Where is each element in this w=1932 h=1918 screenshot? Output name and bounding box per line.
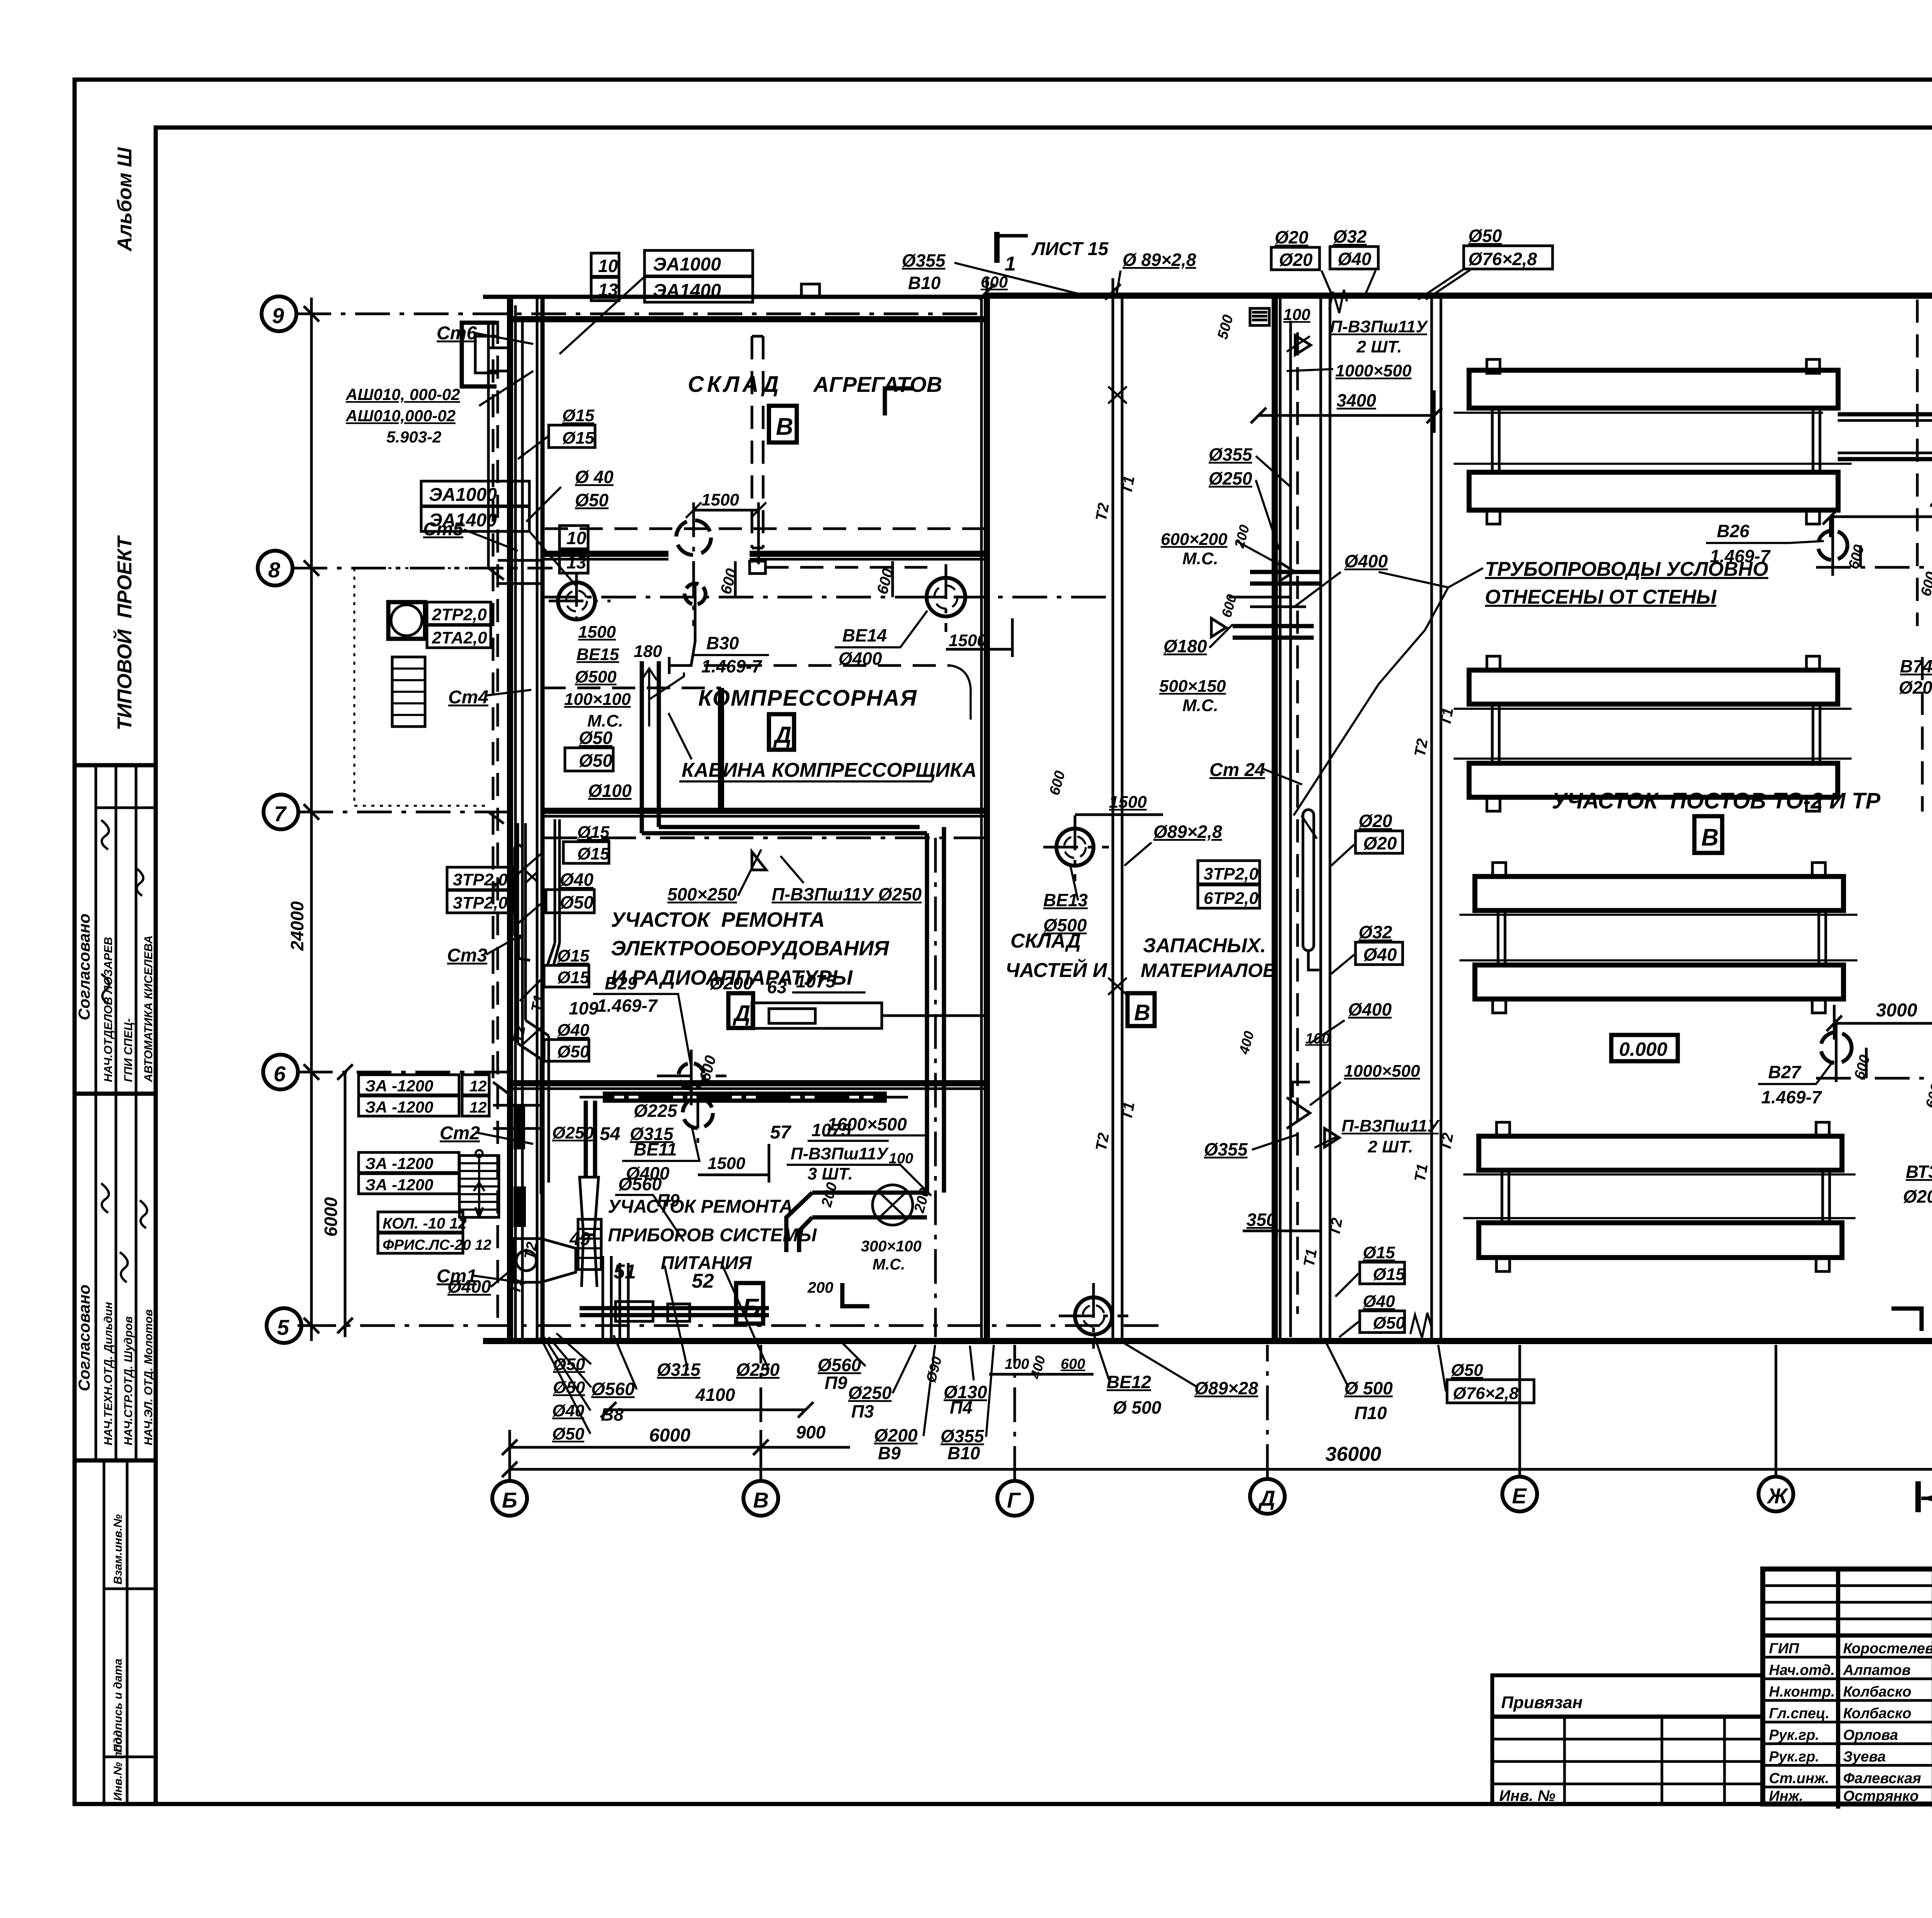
svg-text:Т1: Т1: [1301, 1247, 1320, 1268]
svg-text:УЧАСТОК РЕМОНТА: УЧАСТОК РЕМОНТА: [611, 908, 825, 931]
svg-text:Зуева: Зуева: [1843, 1749, 1886, 1765]
svg-text:Ø76×2,8: Ø76×2,8: [1468, 249, 1537, 269]
svg-text:Ø50: Ø50: [1468, 226, 1502, 246]
dim 1500 at VE16: [694, 502, 759, 564]
left axis circle 7: [264, 795, 298, 829]
svg-text:П-ВЗПш11У: П-ВЗПш11У: [1342, 1116, 1440, 1135]
svg-text:В9: В9: [878, 1443, 901, 1463]
pipes T1 T2 right corridor: [1432, 296, 1441, 1341]
fixture at 1000x500: [1287, 1082, 1310, 1128]
uchastok elektro bottom wall: [507, 1080, 987, 1086]
staircase: [459, 1156, 499, 1217]
svg-text:600: 600: [1061, 1356, 1085, 1372]
svg-text:ВЕ15: ВЕ15: [577, 645, 619, 664]
top wall notch square: [801, 284, 820, 297]
bottom axis circle G: [997, 1481, 1032, 1516]
triangle symbol top: [1295, 335, 1311, 355]
band zigzag jogs: [518, 943, 560, 1194]
svg-text:Ø50: Ø50: [552, 1424, 585, 1443]
svg-text:Ø15: Ø15: [577, 823, 610, 842]
svg-text:57: 57: [770, 1122, 792, 1143]
room letter B box: [736, 1283, 763, 1324]
svg-text:Т2: Т2: [1093, 1132, 1112, 1152]
svg-text:Ø15: Ø15: [557, 968, 590, 987]
section mark 1 top with list 15: [994, 232, 1000, 263]
svg-text:24000: 24000: [287, 901, 307, 951]
pit tabs small squares: [1487, 359, 1829, 1271]
svg-text:Ø500: Ø500: [575, 667, 617, 686]
equipment 51 52: [616, 1302, 653, 1321]
dim 600 rotated at VE16: [734, 561, 737, 597]
svg-text:П-ВЗПш11У Ø250: П-ВЗПш11У Ø250: [772, 884, 922, 904]
svg-text:Ø250: Ø250: [552, 1123, 594, 1142]
kabina kompressorschika wall: [718, 688, 724, 811]
vertical pipes to bottom wall: [603, 1256, 628, 1341]
svg-text:2ТА2,0: 2ТА2,0: [432, 628, 487, 647]
vent VE14: [927, 578, 965, 616]
svg-text:6000: 6000: [649, 1425, 690, 1446]
svg-text:3000: 3000: [1876, 1000, 1917, 1021]
svg-text:Инв.№ подл.: Инв.№ подл.: [112, 1727, 124, 1801]
svg-text:П10: П10: [1354, 1403, 1387, 1423]
corridor pipes T2 T1: [1113, 296, 1122, 1341]
pit edge lines pair3: [1459, 915, 1857, 960]
svg-text:6000: 6000: [321, 1197, 341, 1237]
bottom dimension line 36000: [502, 1462, 1932, 1477]
svg-text:Альбом Ш: Альбом Ш: [114, 147, 136, 252]
svg-text:Ø180: Ø180: [1163, 636, 1207, 656]
svg-text:Д: Д: [773, 722, 791, 748]
svg-text:100×100: 100×100: [564, 690, 631, 709]
svg-text:1000×500: 1000×500: [1335, 361, 1412, 380]
svg-text:Ø76×2,8: Ø76×2,8: [1453, 1384, 1519, 1403]
svg-text:ЛИСТ 15: ЛИСТ 15: [1031, 239, 1109, 259]
dim 600 at VE14: [891, 561, 894, 597]
svg-text:36000: 36000: [1325, 1443, 1381, 1465]
svg-text:ЗА -1200: ЗА -1200: [365, 1176, 433, 1194]
duct elbow bottom and fan: [786, 1193, 927, 1252]
pit pair 2 posts: [1492, 704, 1820, 763]
svg-text:ТИПОВОЙ ПРОЕКТ: ТИПОВОЙ ПРОЕКТ: [113, 535, 136, 730]
title block left grid verticals: [1838, 1569, 1932, 1809]
sidebar soglasovano-1 columns: [96, 765, 136, 1094]
svg-text:Ø200: Ø200: [874, 1425, 918, 1445]
svg-text:ГПИ СПЕЦ-: ГПИ СПЕЦ-: [122, 1018, 135, 1082]
svg-text:Рук.гр.: Рук.гр.: [1769, 1749, 1819, 1765]
svg-text:ЭА1000: ЭА1000: [653, 254, 721, 275]
svg-text:НАЧ.ЭЛ. ОТД. Молотов: НАЧ.ЭЛ. ОТД. Молотов: [142, 1309, 155, 1445]
x-mark on riser: [526, 871, 538, 882]
svg-text:100: 100: [1283, 305, 1310, 323]
stoyak capsule long: [515, 845, 522, 938]
svg-text:100: 100: [1005, 1356, 1029, 1372]
svg-text:Согласовано: Согласовано: [75, 914, 93, 1020]
svg-text:В: В: [1701, 824, 1719, 851]
svg-text:350: 350: [1247, 1210, 1276, 1230]
svg-text:1.469-7: 1.469-7: [1761, 1087, 1822, 1107]
vent V27: [1821, 1032, 1852, 1063]
svg-text:Острянко: Острянко: [1843, 1788, 1919, 1804]
leaders left cluster: [512, 436, 561, 1045]
title block roles and names: [1769, 1641, 1932, 1804]
svg-text:Инв. №: Инв. №: [1499, 1787, 1555, 1804]
room letter V box sklad: [1128, 993, 1155, 1026]
svg-text:Ø20: Ø20: [1275, 227, 1308, 247]
svg-text:Ж: Ж: [1766, 1484, 1789, 1508]
svg-text:Ø315: Ø315: [630, 1124, 674, 1144]
svg-text:Ø560: Ø560: [818, 1355, 861, 1375]
svg-text:Т2: Т2: [1326, 1217, 1346, 1237]
svg-text:Ø 89×2,8: Ø 89×2,8: [1122, 250, 1196, 270]
svg-text:2ТР2,0: 2ТР2,0: [432, 605, 487, 624]
sidebar bottom cells vzam inv: [104, 1460, 127, 1804]
svg-text:КОЛ. -10 12: КОЛ. -10 12: [383, 1215, 467, 1232]
svg-text:Взам.инв.№: Взам.инв.№: [112, 1515, 124, 1584]
svg-text:Ø89×28: Ø89×28: [1194, 1378, 1258, 1398]
svg-text:10: 10: [598, 256, 618, 276]
otm 0.000 box: [1611, 1035, 1678, 1061]
svg-text:Привязан: Привязан: [1501, 1693, 1583, 1712]
svg-text:ЗА -1200: ЗА -1200: [365, 1098, 433, 1116]
svg-text:ЗА -1200: ЗА -1200: [365, 1154, 433, 1173]
2TP2D box: [427, 602, 491, 625]
svg-text:Ст2: Ст2: [440, 1123, 480, 1144]
dim 1500 at VE14: [946, 618, 1012, 657]
svg-text:Д: Д: [1258, 1486, 1275, 1510]
svg-text:ПИТАНИЯ: ПИТАНИЯ: [661, 1253, 752, 1273]
svg-text:0.000: 0.000: [1619, 1038, 1667, 1060]
svg-text:Ø40: Ø40: [1338, 249, 1371, 269]
section mark 1 bottom: [1915, 1481, 1921, 1512]
svg-text:Т1: Т1: [1412, 1162, 1431, 1183]
svg-text:900: 900: [796, 1422, 826, 1442]
vent VE11: [683, 1098, 713, 1128]
svg-text:АШ010,000-02: АШ010,000-02: [345, 407, 456, 425]
sklad agregatov dashed vertical duct: [752, 336, 763, 548]
pit pair 1 bar A: [1469, 370, 1844, 1258]
pit edge lines pair4: [1463, 1174, 1855, 1218]
svg-text:Ø20: Ø20: [1363, 833, 1397, 853]
square with circle unit: [388, 602, 425, 639]
svg-text:180: 180: [634, 642, 662, 661]
svg-text:Т2: Т2: [510, 1025, 529, 1044]
svg-text:3ТР2,0: 3ТР2,0: [1204, 865, 1259, 883]
privyazan table: [1492, 1675, 1763, 1804]
svg-text:Ø315: Ø315: [657, 1360, 701, 1380]
dim 600 at V27: [1865, 1048, 1868, 1078]
svg-text:В74: В74: [1900, 656, 1932, 676]
svg-text:200: 200: [807, 1279, 833, 1296]
svg-text:АГРЕГАТОВ: АГРЕГАТОВ: [813, 372, 942, 397]
svg-text:13: 13: [598, 280, 618, 300]
svg-text:Инж.: Инж.: [1769, 1788, 1803, 1804]
sklad agregatov dashed duct line: [545, 528, 987, 530]
svg-text:1600×500: 1600×500: [827, 1114, 907, 1134]
corner mark bottom right: [1891, 1309, 1922, 1331]
svg-text:ВЕ13: ВЕ13: [1043, 890, 1088, 910]
fixture mid D axis: [1250, 572, 1320, 584]
svg-text:500×250: 500×250: [667, 884, 737, 904]
svg-text:Ст4: Ст4: [448, 687, 488, 708]
svg-text:Ø250: Ø250: [848, 1383, 892, 1403]
svg-text:Ø100: Ø100: [588, 781, 632, 801]
svg-text:Ø40: Ø40: [560, 870, 594, 890]
svg-text:УЧАСТОК РЕМОНТА: УЧАСТОК РЕМОНТА: [608, 1196, 793, 1217]
vent V26: [1818, 531, 1847, 560]
boxes 10 13 second: [560, 526, 588, 549]
svg-text:100: 100: [889, 1150, 913, 1167]
svg-text:100: 100: [1305, 1031, 1330, 1047]
svg-text:Ст3: Ст3: [447, 945, 487, 966]
svg-text:Ø89×2,8: Ø89×2,8: [1153, 822, 1222, 842]
svg-text:3ТР2,0: 3ТР2,0: [453, 870, 508, 889]
left band extra risers and capsules: [518, 819, 560, 1043]
vent VE12: [1075, 1297, 1112, 1334]
svg-text:1500: 1500: [701, 490, 739, 509]
svg-text:Ø400: Ø400: [1348, 999, 1392, 1019]
elektro room vent circle V29: [679, 1063, 704, 1089]
svg-text:1.469-7: 1.469-7: [701, 656, 762, 676]
top wall double band left part: [483, 295, 987, 299]
svg-text:Ø560: Ø560: [591, 1379, 635, 1399]
svg-text:5: 5: [277, 1315, 289, 1339]
svg-text:И РАДИОАППАРАТУРЫ: И РАДИОАППАРАТУРЫ: [611, 966, 853, 989]
svg-text:Ø50: Ø50: [1373, 1314, 1405, 1333]
svg-text:Ø250: Ø250: [736, 1360, 780, 1380]
svg-text:Ø500: Ø500: [1043, 915, 1087, 935]
O400 horn bottom left: [514, 1239, 576, 1282]
svg-text:ЧАСТЕЙ И: ЧАСТЕЙ И: [1005, 958, 1108, 982]
svg-text:Ø225: Ø225: [634, 1101, 678, 1121]
svg-text:7: 7: [274, 802, 287, 826]
svg-text:Т1: Т1: [507, 1276, 526, 1295]
left vertical dimension line 6000: [337, 1064, 353, 1337]
svg-text:Ø400: Ø400: [838, 648, 882, 669]
svg-text:Т2: Т2: [1437, 1132, 1457, 1152]
sidebar section divider: [75, 1458, 156, 1463]
svg-text:Ø355: Ø355: [1209, 444, 1253, 465]
svg-text:УЧАСТОК ПОСТОВ ТО-2 И ТР: УЧАСТОК ПОСТОВ ТО-2 И ТР: [1552, 788, 1881, 813]
svg-text:В10: В10: [947, 1443, 980, 1463]
svg-text:Ø15: Ø15: [562, 429, 595, 448]
stoyak st24 capsule: [1303, 810, 1314, 951]
svg-text:В: В: [1134, 1000, 1150, 1025]
pit pair 3 posts: [1498, 910, 1826, 965]
svg-text:НАЧ.СТР.ОТД. Шудров: НАЧ.СТР.ОТД. Шудров: [122, 1316, 135, 1445]
svg-text:В10: В10: [908, 273, 941, 293]
svg-text:Ø250: Ø250: [1209, 468, 1252, 488]
svg-text:Ø355: Ø355: [1204, 1139, 1248, 1159]
svg-text:Рук.гр.: Рук.гр.: [1769, 1727, 1819, 1743]
svg-text:Коростелев: Коростелев: [1843, 1641, 1932, 1657]
room letter V box TO2: [1694, 816, 1722, 853]
svg-text:Орлова: Орлова: [1843, 1727, 1898, 1743]
svg-text:1000×500: 1000×500: [1344, 1062, 1420, 1081]
svg-text:В30: В30: [706, 633, 739, 653]
svg-text:12: 12: [469, 1099, 487, 1116]
left axis circle 6: [263, 1055, 298, 1089]
svg-text:Ø 500: Ø 500: [1113, 1397, 1162, 1418]
svg-text:Ст6: Ст6: [437, 323, 477, 344]
svg-text:М.С.: М.С.: [872, 1256, 905, 1273]
svg-text:М.С.: М.С.: [1182, 696, 1218, 715]
kompressornaya upper dashed line: [669, 664, 951, 667]
svg-text:Согласовано: Согласовано: [75, 1285, 93, 1391]
svg-text:Г: Г: [1007, 1488, 1021, 1512]
pit pair 4 posts: [1502, 1170, 1830, 1223]
dark assembly st2: [514, 1106, 525, 1149]
left wall top annex: [462, 323, 497, 386]
sklad agregatov bottom wall: [543, 551, 987, 557]
svg-text:Т2: Т2: [1093, 502, 1112, 522]
bottom axis circle Zh: [1759, 1477, 1793, 1511]
svg-text:Ø400: Ø400: [447, 1276, 491, 1297]
svg-text:Ø40: Ø40: [1363, 945, 1397, 965]
dark assembly st1: [514, 1186, 526, 1227]
svg-text:ЭЛЕКТРООБОРУДОВАНИЯ: ЭЛЕКТРООБОРУДОВАНИЯ: [611, 937, 889, 960]
left axis circle 5: [267, 1308, 301, 1343]
svg-text:ГИП: ГИП: [1769, 1641, 1799, 1657]
duct triangle symbol: [752, 852, 766, 870]
svg-text:Ø32: Ø32: [1333, 226, 1367, 247]
pit pair 1 posts: [1492, 408, 1820, 472]
bottom-left ZA-1200 boxes row2: [359, 1152, 459, 1173]
boxes 3TP2.0 6TP2.0: [1198, 861, 1260, 884]
svg-text:Гл.спец.: Гл.спец.: [1769, 1705, 1830, 1722]
svg-text:ВЕ12: ВЕ12: [1107, 1372, 1151, 1392]
svg-text:51: 51: [614, 1261, 636, 1283]
svg-text:Ø50: Ø50: [579, 728, 612, 748]
equipment bar 63 in elektro room: [752, 1003, 882, 1028]
svg-text:П9: П9: [825, 1373, 847, 1393]
bottom wall: [483, 1338, 1932, 1344]
svg-text:1500: 1500: [707, 1154, 745, 1173]
svg-text:Колбаско: Колбаско: [1843, 1705, 1912, 1722]
svg-text:ЭА1400: ЭА1400: [653, 281, 721, 301]
riser O560 in pribory room: [586, 1101, 595, 1177]
svg-text:6: 6: [274, 1062, 286, 1086]
svg-text:3400: 3400: [1337, 390, 1376, 410]
sklad chastey right wall: [1272, 296, 1278, 1341]
vent VE15: [558, 582, 595, 619]
kompressor duct horizontal: [642, 827, 927, 833]
svg-text:Т1: Т1: [1118, 475, 1138, 495]
svg-text:ЗАПАСНЫХ.: ЗАПАСНЫХ.: [1143, 934, 1266, 957]
svg-text:Ст 24: Ст 24: [1209, 760, 1265, 780]
kompressornaya bottom wall: [543, 808, 987, 814]
hatched fixture near bottom wall: [578, 1219, 601, 1270]
pipes right of sklad wall: [1321, 296, 1330, 1341]
pipe O225 run in pribory room: [603, 1094, 887, 1101]
svg-text:КОМПРЕССОРНАЯ: КОМПРЕССОРНАЯ: [698, 686, 917, 711]
svg-text:ОТНЕСЕНЫ ОТ СТЕНЫ: ОТНЕСЕНЫ ОТ СТЕНЫ: [1485, 586, 1717, 608]
svg-text:1.469-7: 1.469-7: [597, 996, 658, 1016]
sidebar signatures: [101, 820, 147, 1282]
room letter D box 2: [728, 993, 753, 1028]
svg-text:300×100: 300×100: [861, 1238, 922, 1255]
svg-text:5.903-2: 5.903-2: [386, 428, 441, 446]
svg-text:109: 109: [569, 998, 599, 1018]
bottom-left KOL box: [378, 1212, 463, 1232]
svg-text:НАЧ.ОТДЕЛОВ ЛОЗАРЕВ: НАЧ.ОТДЕЛОВ ЛОЗАРЕВ: [102, 937, 115, 1082]
svg-text:500×150: 500×150: [1159, 677, 1226, 696]
svg-text:Колбаско: Колбаско: [1843, 1684, 1912, 1700]
kompressor duct corner down: [927, 827, 944, 1193]
svg-text:ВЕ14: ВЕ14: [842, 625, 887, 645]
svg-text:В: В: [776, 414, 793, 440]
sidebar section divider top of soglasovano-1: [75, 763, 156, 768]
svg-text:6ТР2,0: 6ТР2,0: [1204, 889, 1259, 908]
svg-text:Ø15: Ø15: [1373, 1265, 1405, 1284]
svg-text:1: 1: [1005, 253, 1016, 275]
svg-text:В26: В26: [1717, 521, 1750, 541]
svg-text:12: 12: [469, 1078, 487, 1095]
pit edge lines pair1: [1454, 413, 1852, 464]
svg-text:Ø200: Ø200: [1903, 1186, 1932, 1207]
L-shape mark pribory: [842, 1283, 869, 1306]
svg-text:ВТ3: ВТ3: [1906, 1162, 1932, 1182]
3TP2,0 boxes: [447, 867, 512, 890]
bottom dimension line 6000: [502, 1430, 769, 1465]
svg-text:Т1: Т1: [1118, 1101, 1138, 1122]
svg-text:Ст5: Ст5: [423, 519, 464, 539]
svg-text:Ø32: Ø32: [1359, 922, 1392, 942]
svg-text:В: В: [753, 1488, 769, 1512]
fixture at top D axis: [1250, 308, 1269, 325]
bottom axis circle E: [1502, 1477, 1537, 1511]
kompressor duct vertical: [642, 661, 659, 833]
svg-text:АШ010, 000-02: АШ010, 000-02: [345, 385, 460, 403]
stairs center arrow: [475, 1154, 483, 1217]
breakline M bottom: [1410, 1313, 1431, 1338]
inner pipes near sklad wall: [1289, 321, 1292, 1337]
bottom axis circle D: [1250, 1479, 1285, 1514]
svg-text:В27: В27: [1768, 1062, 1802, 1082]
dim 600 at V26: [1859, 545, 1862, 567]
svg-text:АВТОМАТИКА КИСЕЛЕВА: АВТОМАТИКА КИСЕЛЕВА: [142, 935, 155, 1082]
svg-text:1500: 1500: [1109, 793, 1147, 812]
svg-text:Алпатов: Алпатов: [1843, 1662, 1911, 1678]
sidebar section divider: [75, 1092, 156, 1096]
svg-text:4100: 4100: [695, 1385, 735, 1405]
triangle right col: [1325, 1128, 1339, 1147]
svg-text:2 ШТ.: 2 ШТ.: [1356, 337, 1402, 356]
left block right wall: [980, 296, 983, 1341]
svg-text:Фалевская: Фалевская: [1843, 1770, 1921, 1787]
pit offset bar right: [1838, 414, 1932, 459]
svg-text:Ø15: Ø15: [577, 844, 610, 863]
top wall single right part: [987, 293, 1932, 299]
svg-text:4500: 4500: [1930, 493, 1932, 514]
svg-text:Ст.инж.: Ст.инж.: [1769, 1770, 1829, 1787]
dashed curtain line in TO-2 zone: [1916, 300, 1919, 626]
svg-text:Нач.отд.: Нач.отд.: [1769, 1662, 1835, 1678]
svg-text:ЗА -1200: ЗА -1200: [365, 1077, 433, 1095]
svg-text:ЭА1000: ЭА1000: [429, 485, 497, 505]
left band serrated boundary: [354, 568, 487, 806]
svg-text:КАБИНА КОМПРЕССОРЩИКА: КАБИНА КОМПРЕССОРЩИКА: [682, 759, 977, 781]
svg-text:Е: Е: [1512, 1484, 1527, 1508]
svg-text:Ø15: Ø15: [557, 946, 590, 965]
svg-text:Ø20: Ø20: [1279, 250, 1313, 270]
left band jogs: [488, 348, 543, 1128]
title block outline: [1763, 1569, 1932, 1804]
svg-text:Ø 500: Ø 500: [1344, 1378, 1393, 1398]
svg-text:НАЧ.ТЕХН.ОТД. Дильдин: НАЧ.ТЕХН.ОТД. Дильдин: [102, 1302, 115, 1445]
pit edge lines pair2: [1454, 709, 1852, 759]
room letter V box: [769, 406, 797, 442]
svg-text:П-ВЗПш11У: П-ВЗПш11У: [791, 1144, 889, 1163]
